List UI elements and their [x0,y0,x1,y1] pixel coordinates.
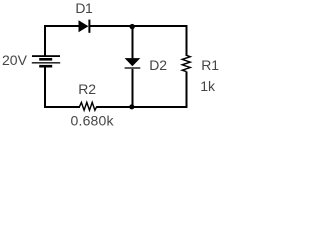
diode D1 triangle (anode left, pointing right) [79,20,89,32]
diode D1 cathode bar [88,20,90,33]
wire bottom-right horizontal (node to right corner) [132,106,188,108]
junction dot top node [130,24,135,29]
battery V1 20V long plate top [32,55,60,57]
battery V1 short thick plate upper [39,58,52,61]
svg-text:1k: 1k [200,78,216,94]
diode D2 triangle (pointing down) [125,58,141,66]
wire middle vertical (D2 cathode to bottom node) [131,69,133,109]
wire left vertical (top corner to battery) [44,25,46,56]
junction dot bottom node [129,104,134,109]
wire top-middle horizontal (D1 cathode to node) [90,25,132,27]
battery V1 short thick plate lower [39,65,52,68]
diode D2 cathode bar [125,67,141,69]
wire right vertical (R1 to bottom corner) [186,71,188,108]
wire middle vertical (top node to D2 anode) [131,26,133,58]
wire top-left horizontal [44,25,79,27]
svg-text:R2: R2 [78,81,96,97]
svg-text:D2: D2 [149,57,167,73]
battery V1 long plate lower [32,62,60,64]
svg-text:0.680k: 0.680k [71,112,115,128]
resistor R1 zigzag [182,55,190,71]
resistor R2 zigzag [80,102,97,110]
wire bottom-middle horizontal (R2 to node) [97,106,133,108]
wire right vertical (top corner to R1) [186,25,188,56]
svg-text:D1: D1 [75,0,93,16]
svg-text:20V: 20V [2,52,28,68]
wire bottom-left horizontal (corner to R2) [44,106,80,108]
wire left vertical (battery to bottom corner) [44,67,46,108]
wire top-right horizontal (node to right corner) [132,25,188,27]
svg-text:R1: R1 [201,57,219,73]
